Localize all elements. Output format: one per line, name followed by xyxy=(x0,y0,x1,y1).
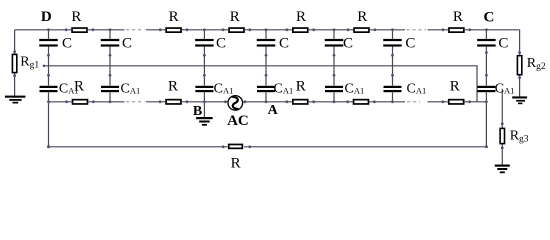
svg-text:A: A xyxy=(268,103,279,118)
svg-text:R: R xyxy=(450,79,460,95)
svg-text:C: C xyxy=(405,36,415,52)
svg-text:R: R xyxy=(71,9,81,25)
svg-text:B: B xyxy=(193,104,202,119)
svg-text:R: R xyxy=(296,9,306,25)
svg-text:R: R xyxy=(453,9,463,25)
svg-text:R: R xyxy=(168,79,178,95)
svg-text:AC: AC xyxy=(227,113,249,129)
svg-text:C: C xyxy=(343,36,353,52)
svg-text:CA1: CA1 xyxy=(274,81,294,96)
svg-text:C: C xyxy=(62,36,72,52)
svg-text:CA1: CA1 xyxy=(407,81,427,96)
svg-text:R: R xyxy=(296,79,306,95)
svg-text:C: C xyxy=(122,36,132,52)
svg-text:C: C xyxy=(216,36,226,52)
svg-text:C: C xyxy=(279,36,289,52)
svg-text:Rg2: Rg2 xyxy=(527,56,546,72)
svg-text:CA1: CA1 xyxy=(121,81,141,96)
svg-text:D: D xyxy=(41,9,52,25)
svg-text:R: R xyxy=(169,9,179,25)
svg-text:R: R xyxy=(357,9,367,25)
svg-text:R: R xyxy=(231,156,241,172)
svg-text:CA1: CA1 xyxy=(495,81,515,96)
svg-text:CA1: CA1 xyxy=(214,81,234,96)
svg-text:C: C xyxy=(498,36,508,52)
svg-text:CA1: CA1 xyxy=(345,81,365,96)
svg-text:R: R xyxy=(230,9,240,25)
svg-text:Rg1: Rg1 xyxy=(20,55,39,71)
svg-text:Rg3: Rg3 xyxy=(510,128,529,144)
svg-text:C: C xyxy=(483,9,494,25)
